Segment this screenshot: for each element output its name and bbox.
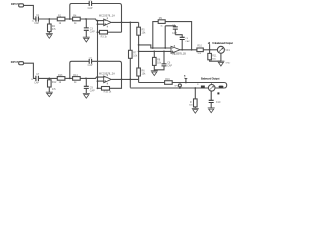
column B wire [138, 22, 140, 79]
resistor R10 (unbalanced out series) [197, 45, 203, 55]
svg-text:CAP: CAP [167, 64, 172, 67]
node D junction [209, 49, 211, 51]
resistor R18 (balanced bottom to ground) [189, 87, 197, 108]
svg-text:VF1: VF1 [225, 49, 230, 52]
svg-text:10k: 10k [142, 72, 147, 75]
node A junction [48, 18, 50, 20]
wire U1B output [180, 49, 197, 51]
ground (R8) [151, 71, 158, 76]
svg-text:R11: R11 [212, 55, 217, 58]
svg-text:R16: R16 [165, 78, 170, 81]
svg-text:R: R [197, 84, 199, 86]
svg-text:1k: 1k [59, 81, 62, 84]
wire VF1 bottom [220, 53, 222, 61]
capacitor C9 (node G to ground) [84, 78, 95, 93]
svg-text:INPUT: INPUT [11, 2, 19, 6]
resistor R14 [73, 74, 81, 84]
resistor R2 (to ground) [48, 19, 57, 34]
wire from port2 [24, 63, 36, 78]
resistor R17 (balanced bottom series, dark) [197, 84, 205, 88]
resistor R8 (U1B plus to ground) [153, 51, 162, 70]
ground (C3) [83, 37, 90, 42]
svg-text:CAP: CAP [88, 7, 93, 10]
svg-text:R14: R14 [73, 74, 78, 77]
svg-text:MC33078_2A: MC33078_2A [99, 72, 115, 75]
capacitor C3 (node C to ground) [84, 19, 95, 37]
svg-text:CAP: CAP [34, 22, 39, 25]
svg-text:C7: C7 [36, 73, 40, 76]
wire R13 to R14 [65, 77, 73, 79]
tiny label near VF2 [217, 92, 219, 94]
capacitor C6 (U1B plus to ground) [154, 51, 172, 69]
svg-text:1k: 1k [160, 25, 163, 27]
resistor R16 (balanced top series) [165, 78, 173, 84]
balanced top line [139, 82, 165, 84]
op-amp U1B [171, 45, 186, 56]
wire feedback col down to R3 [121, 22, 123, 32]
wire C1 to node A [38, 18, 57, 20]
svg-text:47k: 47k [52, 28, 57, 31]
resistor R5 (on column B upper) [137, 27, 146, 35]
capacitor C2 (feedback) [88, 0, 93, 10]
capacitor C7 [31, 73, 40, 84]
capacitor C10 (VF2 to ground) [209, 91, 221, 108]
svg-text:600: 600 [189, 105, 193, 107]
column A wire [129, 22, 131, 87]
op-amp U1A [99, 15, 115, 28]
svg-text:CAP: CAP [88, 64, 93, 67]
svg-text:1k: 1k [74, 22, 77, 25]
wire plus input U1A [98, 23, 104, 25]
wire R14 to opamp minus [80, 77, 104, 78]
svg-text:MC33078_1B: MC33078_1B [172, 53, 186, 56]
feedback riser node B [70, 4, 89, 20]
node E junction [48, 78, 50, 80]
svg-text:1k: 1k [74, 81, 77, 84]
svg-text:C1: C1 [36, 14, 40, 17]
bold terminal dash [219, 86, 224, 88]
long vertical rail x=97.5 [97, 21, 99, 89]
svg-text:CAP: CAP [185, 40, 190, 43]
balanced top line cont [172, 83, 227, 89]
svg-text:47k: 47k [52, 88, 57, 91]
wire C7 to node E [38, 77, 57, 79]
svg-text:10k: 10k [142, 32, 147, 35]
svg-text:CAP: CAP [90, 31, 95, 34]
wire R4 to opamp minus [80, 19, 104, 21]
resistor R7 (on column A) [129, 50, 138, 58]
resistor R6 (on column B lower) [137, 68, 146, 76]
svg-text:R10: R10 [197, 45, 202, 48]
resistor R11 (node D to ground) [208, 50, 221, 61]
resistor R12 (to ground) [48, 78, 57, 92]
capacitor C1 [32, 14, 40, 25]
jog to balanced top line [138, 79, 140, 82]
svg-text:INPUT: INPUT [11, 60, 19, 64]
ground (node A) [46, 34, 53, 39]
resistor R13 [57, 74, 65, 84]
node G junction [85, 78, 87, 80]
op-amp U2A [99, 72, 115, 84]
balanced bottom line [130, 87, 224, 89]
wire R1 to R4 [65, 18, 73, 20]
wire U1A output [111, 21, 138, 23]
wire U2A output [111, 78, 138, 80]
voltmeter VF1 [217, 46, 230, 53]
svg-text:MC33078_1A: MC33078_1A [99, 15, 115, 18]
wire plus input U2A [98, 80, 104, 82]
svg-text:C10: C10 [216, 101, 221, 104]
capacitor C8 (feedback) [88, 58, 93, 68]
feedback riser node F [70, 61, 89, 78]
svg-text:Balanced Output: Balanced Output [201, 77, 220, 81]
svg-text:R3 1k: R3 1k [101, 35, 108, 38]
wire C8 to output column [92, 61, 122, 79]
svg-text:Unbalanced Output: Unbalanced Output [212, 41, 233, 45]
node B junction [69, 18, 71, 20]
node F junction [69, 78, 71, 80]
ground (R18) [192, 108, 199, 113]
ground (C9) [83, 93, 90, 98]
resistor R1 [57, 15, 65, 25]
wire from port1 [24, 5, 36, 19]
voltmeter VF2 [208, 83, 215, 92]
svg-text:CAP: CAP [90, 89, 95, 92]
svg-text:R: R [190, 101, 192, 104]
svg-text:CAP: CAP [34, 82, 39, 85]
label flag Unbalanced Output [208, 41, 233, 50]
resistor R9 (feedback U1B) [153, 17, 192, 50]
ground (C10) [208, 108, 215, 113]
ground (node E) [46, 92, 53, 97]
svg-text:R12: R12 [52, 81, 57, 84]
svg-text:R13: R13 [58, 74, 63, 77]
net label flag on balanced top line [184, 74, 188, 84]
ground (unbalanced) [217, 61, 230, 66]
svg-text:100: 100 [197, 53, 201, 55]
wire to U1B plus [139, 50, 171, 52]
wire C2 to output column [92, 4, 122, 23]
connector bead [174, 84, 183, 89]
svg-text:R15 1k: R15 1k [104, 91, 112, 94]
node C junction [85, 18, 87, 20]
svg-text:C5: C5 [185, 38, 189, 40]
wire to U1B minus [139, 45, 171, 48]
capacitor C4 (inner feedback) [165, 24, 178, 48]
port INPUT1 [11, 2, 24, 7]
port INPUT2 [11, 60, 24, 65]
svg-text:10k: 10k [157, 62, 162, 65]
resistor R3 (feedback U1A) [98, 30, 122, 38]
svg-text:1k: 1k [59, 22, 62, 25]
capacitor C5 (inner feedback 2) [175, 35, 190, 50]
svg-text:10k: 10k [133, 55, 138, 58]
svg-text:600: 600 [212, 59, 216, 61]
wire R10 to node D [203, 49, 217, 51]
svg-text:a: a [184, 74, 186, 78]
svg-text:GND: GND [225, 63, 230, 65]
resistor R4 [73, 15, 81, 25]
resistor R15 (feedback U2A) [98, 79, 122, 93]
